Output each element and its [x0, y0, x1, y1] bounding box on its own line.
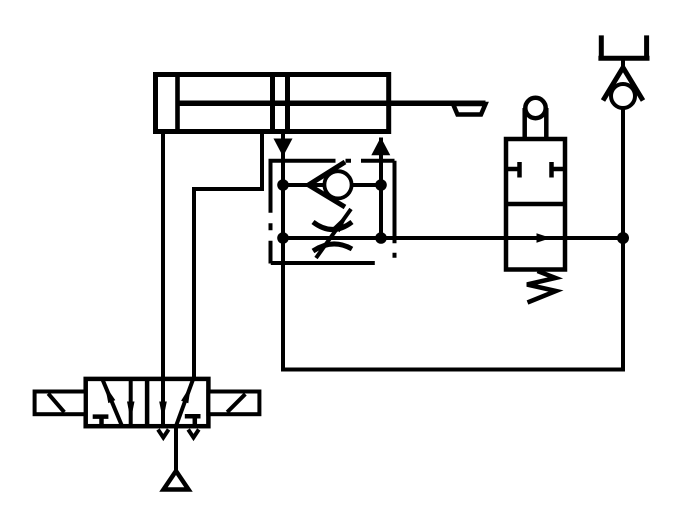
valve V1 right square blocked port T [185, 416, 201, 426]
wire cylinder to flow control left branch [281, 132, 285, 239]
valve V1 exhaust chevron right [188, 430, 199, 438]
roller valve V2 body [506, 139, 565, 270]
arrow up into cylinder [371, 137, 390, 155]
valve V2 mid divider [506, 202, 565, 207]
valve V2 top square blocked port right [552, 162, 566, 178]
valve V2 return spring [527, 271, 556, 303]
valve V1 exhaust chevron left [158, 430, 169, 438]
junction dot right [617, 232, 629, 244]
wire junction up to check valve V4 [621, 109, 625, 238]
valve V1 right square down arrow [161, 379, 165, 426]
flow control V3 dashed enclosure top [269, 159, 395, 163]
cylinder piston rod [178, 100, 486, 106]
check valve V4 seat [603, 68, 643, 101]
supply triangle [164, 471, 189, 490]
wire flow control right branch up to cylinder [379, 138, 383, 239]
exhaust funnel U [598, 35, 649, 58]
check valve V3a ball [324, 171, 351, 198]
wire cylinder left port down to valve V1 [161, 134, 165, 379]
valve V1 right square diagonal arrow [176, 380, 193, 427]
cylinder piston [270, 75, 275, 132]
flow arrow in valve V2 [537, 233, 552, 243]
lower loop wire [283, 238, 623, 370]
valve V2 roller stem [522, 108, 527, 139]
valve V1 left square diagonal arrow [103, 380, 123, 427]
cylinder cap wall [175, 72, 180, 134]
valve V1 right pilot solenoid [208, 392, 259, 415]
rod end cam [453, 104, 486, 115]
check valve V3a seat [309, 162, 346, 207]
throttle adjust arrow [316, 209, 351, 258]
valve V1 left pilot solenoid [35, 392, 86, 415]
throttle lower arc [313, 244, 352, 251]
node dot top-left [277, 179, 289, 191]
node dot bottom-left [277, 232, 289, 244]
valve V2 roller [525, 98, 545, 118]
check valve V4 stem [621, 58, 625, 72]
flow control top path wire [283, 183, 381, 187]
wire cylinder second port L-bend [194, 132, 262, 380]
cylinder A1 body [156, 75, 389, 132]
flow control V3 dashed enclosure bottom [271, 261, 395, 265]
flow control V3 dashed enclosure left [269, 161, 273, 264]
bottom path wire through valve V2 [283, 236, 623, 240]
valve V1 left square blocked port T [93, 417, 109, 426]
node dot bottom-right [375, 232, 387, 244]
valve V1 divider [145, 379, 150, 426]
valve V1 body [86, 379, 209, 426]
arrow down into flow control [274, 139, 293, 157]
flow control V3 dashed enclosure right [393, 161, 397, 263]
valve V1 left square down arrow [129, 379, 133, 426]
check valve V4 ball [611, 84, 635, 108]
valve V1 supply line [174, 426, 178, 470]
node dot top-right [375, 179, 387, 191]
throttle upper arc [313, 222, 352, 230]
valve V2 top square blocked port left [506, 162, 520, 178]
